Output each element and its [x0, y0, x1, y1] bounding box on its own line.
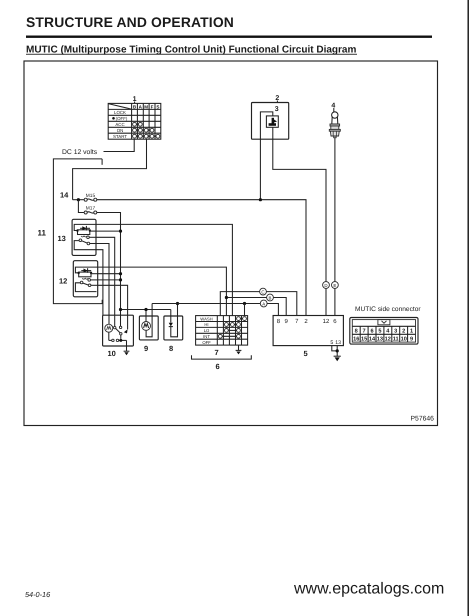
svg-text:ON: ON: [117, 128, 124, 133]
ON contacts: [135, 129, 153, 131]
wire: relay13 coil to common drop: [96, 230, 121, 232]
ground below MUTIC: [334, 356, 341, 361]
svg-text:HI: HI: [204, 322, 208, 327]
svg-text:5: 5: [304, 349, 308, 358]
title rule: [26, 36, 432, 38]
bracket 11: [53, 159, 102, 304]
wire: M17 rail to common drop: [97, 213, 121, 316]
unit 3 icon: [269, 118, 277, 126]
svg-text:16: 16: [353, 337, 359, 343]
wire: relay13 loop drop: [96, 250, 103, 316]
svg-text:www.epcatalogs.com: www.epcatalogs.com: [293, 581, 444, 598]
wire: sensor 4 to pin 6: [334, 138, 336, 316]
wire: feed down to M17: [78, 200, 84, 213]
node C: [260, 288, 267, 295]
ignition switch 1 table: [108, 103, 161, 139]
diode unit 8: [164, 310, 183, 340]
svg-text:WASH: WASH: [200, 316, 212, 321]
svg-text:14: 14: [369, 337, 376, 343]
svg-text:10: 10: [401, 337, 407, 343]
relay 12: [73, 261, 97, 297]
wire: relay13 top lead to wiper switch col3: [96, 224, 232, 315]
wire: switch B terminal to DC 12 volts: [104, 139, 135, 151]
svg-text:13: 13: [335, 340, 341, 346]
subtitle underline: [26, 53, 357, 56]
svg-text:12: 12: [323, 318, 330, 325]
buzzer unit 2 box: [252, 103, 289, 140]
svg-text:8: 8: [355, 329, 358, 335]
wire: relay12 top lead to wiper switch col2: [98, 267, 227, 316]
svg-text:ACC: ACC: [115, 122, 124, 127]
svg-text:9: 9: [144, 344, 148, 353]
fuse M17: [84, 206, 97, 214]
bracket 6: [192, 355, 252, 359]
wire: box 2 left lead down to M15 rail: [259, 139, 261, 200]
svg-text:5: 5: [378, 329, 381, 335]
wire: relay12 arm drop: [98, 285, 128, 315]
svg-text:12: 12: [385, 337, 391, 343]
svg-text:M: M: [144, 104, 148, 109]
svg-text:DC 12 volts: DC 12 volts: [62, 149, 98, 156]
node D: [323, 282, 330, 289]
svg-text:STRUCTURE AND OPERATION: STRUCTURE AND OPERATION: [26, 14, 234, 30]
svg-text:3: 3: [394, 329, 397, 335]
svg-text:1: 1: [410, 329, 413, 335]
svg-text:M17: M17: [86, 206, 96, 212]
wire A rail: washer motor to pin 8: [152, 304, 278, 316]
svg-text:7: 7: [363, 329, 366, 335]
svg-text:13: 13: [377, 337, 383, 343]
sensor 4 (plug symbol): [329, 112, 340, 138]
unit 3 box: [266, 116, 278, 127]
svg-text:7: 7: [215, 348, 219, 357]
svg-text:F: F: [151, 104, 154, 109]
wire: switch M terminal down-left to fuse feed: [73, 139, 147, 200]
svg-text:A: A: [262, 302, 265, 307]
svg-text:5: 5: [330, 340, 333, 346]
node E: [332, 282, 339, 289]
unit 3 internal wiring: [260, 112, 272, 139]
wire: A rail drop into wiper col5: [244, 304, 246, 316]
fuse M15: [73, 193, 97, 201]
svg-text:11: 11: [38, 229, 47, 238]
svg-text:9: 9: [410, 337, 413, 343]
washer motor 9: [139, 310, 158, 340]
svg-text:14: 14: [60, 190, 69, 199]
node: join M15 rail: [259, 198, 262, 201]
page right edge line: [468, 0, 469, 616]
wire: unit 3 lead to pin 12: [273, 139, 326, 315]
ground below unit 10: [124, 346, 130, 355]
svg-text:11: 11: [393, 337, 399, 343]
wire: pins 5,13 to ground: [332, 346, 337, 351]
svg-text:6: 6: [216, 362, 220, 371]
svg-text:LOCK: LOCK: [114, 110, 126, 115]
svg-text:54-0-16: 54-0-16: [25, 590, 51, 599]
MUTIC unit 5: [273, 316, 343, 346]
svg-text:13: 13: [58, 234, 66, 243]
diagram frame: [24, 61, 438, 426]
svg-text:MUTIC side connector: MUTIC side connector: [355, 306, 421, 313]
svg-text:15: 15: [361, 337, 367, 343]
wiper motor unit 10: [103, 315, 134, 346]
svg-text:2: 2: [402, 329, 405, 335]
svg-text:8: 8: [169, 344, 173, 353]
wire: relay13 arm drop: [96, 244, 109, 316]
node B: [267, 294, 274, 301]
ACC contacts: [135, 123, 141, 125]
svg-text:S: S: [156, 104, 159, 109]
wiper switch 7 table: [196, 316, 248, 346]
svg-text:LO: LO: [204, 328, 210, 333]
svg-text:B: B: [269, 296, 272, 301]
svg-text:P57646: P57646: [411, 416, 435, 423]
svg-text:(OFF): (OFF): [116, 116, 128, 121]
rail to washer/diode units: [121, 309, 171, 311]
START contacts: [135, 135, 158, 137]
wire C rail: wiper col1 to pin 7: [220, 292, 296, 316]
svg-text:INT: INT: [203, 334, 210, 339]
wire: relay13 contact drop: [96, 237, 115, 315]
relay 13: [72, 219, 96, 255]
svg-text:10: 10: [108, 349, 116, 358]
wire: unit 3 bottom down: [272, 127, 274, 139]
node: fuse feed junction: [77, 198, 80, 201]
svg-text:START: START: [113, 134, 127, 139]
svg-text:3: 3: [275, 106, 279, 113]
wire: diode unit to A rail: [177, 304, 179, 317]
wire: relay12 contact to common drop: [98, 279, 121, 281]
svg-text:E: E: [333, 283, 336, 288]
wire: relay12 coil to common drop: [98, 273, 121, 275]
wire: washer motor to A rail: [151, 304, 153, 317]
wire B rail: col2 drop tee to pin 9: [226, 298, 286, 316]
ground below wiper switch: [236, 345, 242, 354]
svg-text:C: C: [261, 290, 264, 295]
node A: [260, 300, 267, 307]
wire: M15 rail to pin 2 of MUTIC: [97, 200, 306, 316]
svg-text:6: 6: [370, 329, 373, 335]
MUTIC side connector: [350, 318, 418, 345]
svg-text:M15: M15: [86, 193, 96, 199]
svg-text:12: 12: [59, 276, 67, 285]
svg-text:D: D: [324, 283, 327, 288]
svg-text:OFF: OFF: [202, 340, 211, 345]
